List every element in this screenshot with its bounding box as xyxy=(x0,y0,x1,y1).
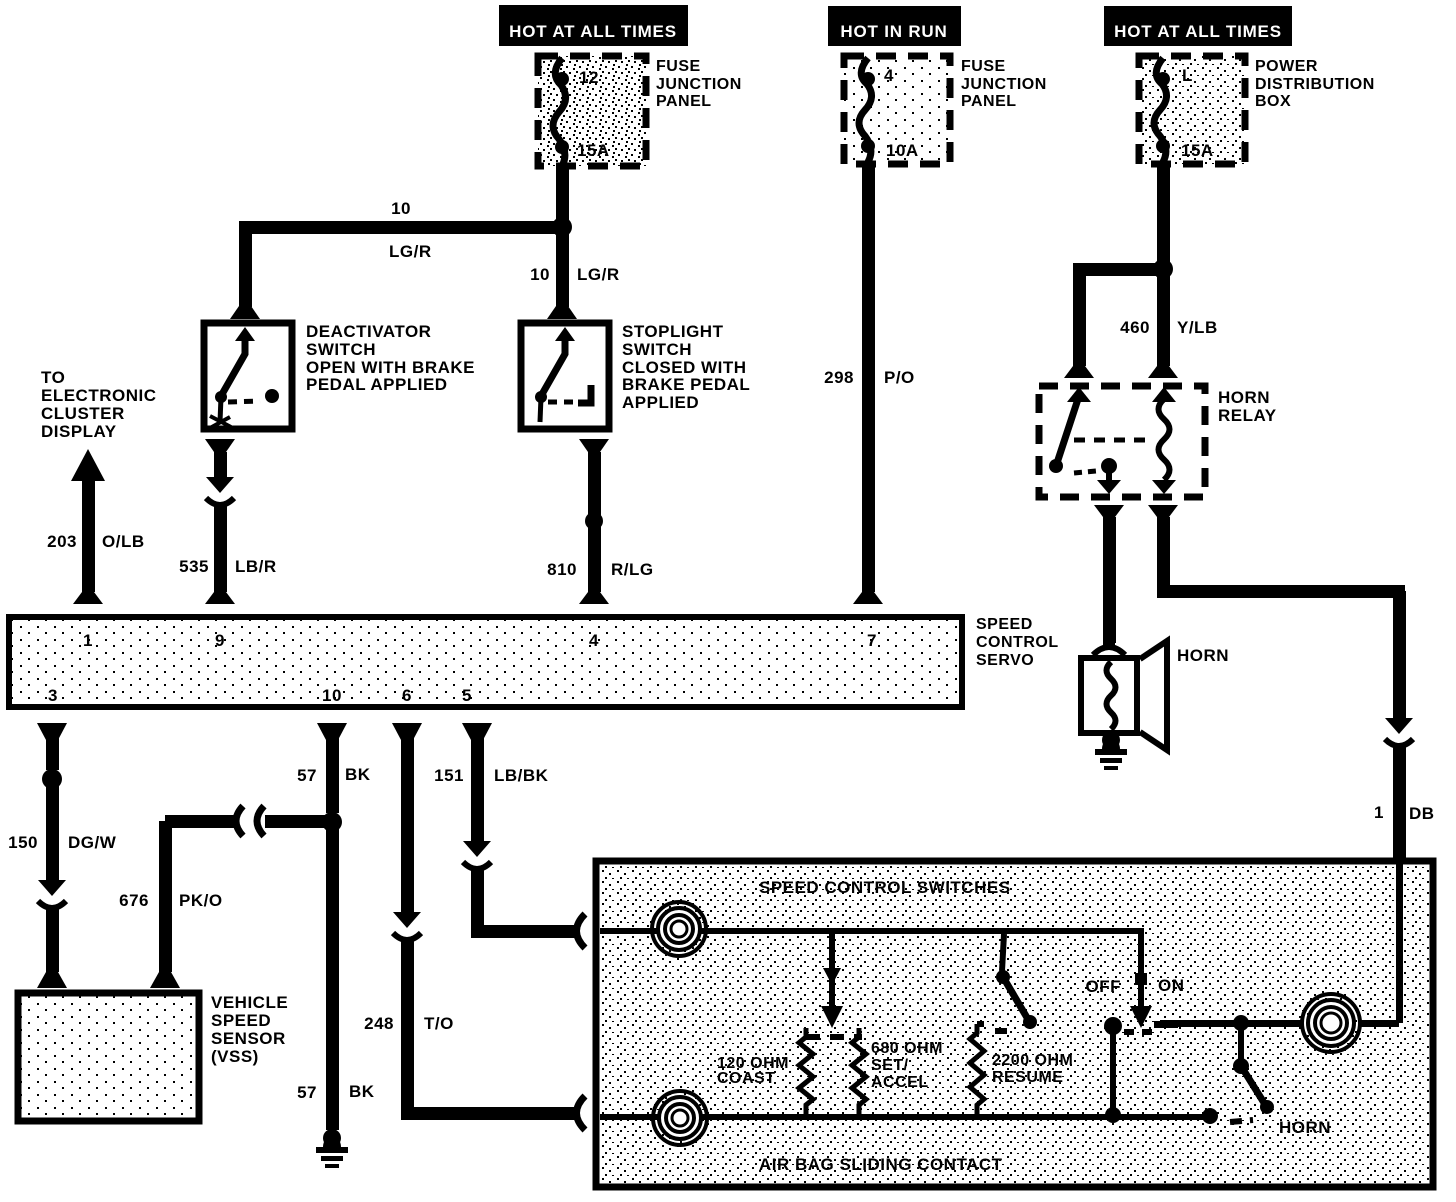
deactivator switch contacts xyxy=(210,327,279,428)
wire deactivator to inline connector xyxy=(214,452,227,477)
svg-text:STOPLIGHT: STOPLIGHT xyxy=(622,322,724,341)
off/on alternate dashes xyxy=(1124,1029,1152,1035)
wire 10 LG/R horizontal xyxy=(240,221,568,234)
svg-text:R/LG: R/LG xyxy=(611,560,654,579)
servo pin 6 cup flare xyxy=(392,723,422,740)
svg-text:(VSS): (VSS) xyxy=(211,1047,259,1066)
horn switch arm xyxy=(1241,1066,1274,1114)
label 680 OHM SET/ACCEL xyxy=(871,1040,943,1091)
servo pin 10 cup flare xyxy=(317,723,347,740)
wire from junction down to stoplight switch xyxy=(556,227,569,307)
fuse rating label 15A xyxy=(577,141,610,160)
svg-text:DG/W: DG/W xyxy=(68,833,117,852)
connector flare onto relay pin B xyxy=(1148,366,1178,378)
fuse junction panel box (left, dashed) xyxy=(538,56,646,166)
splice node on 150 wire xyxy=(42,769,62,789)
horn relay switch xyxy=(1049,387,1150,494)
svg-text:7: 7 xyxy=(867,631,877,650)
wire relay coil to ground run xyxy=(1157,517,1170,597)
label POWER DISTRIBUTION BOX xyxy=(1255,58,1375,110)
svg-text:12: 12 xyxy=(579,68,599,87)
horn coil xyxy=(1107,662,1116,729)
horn switch pivot node xyxy=(1233,1058,1249,1074)
svg-text:151: 151 xyxy=(434,766,464,785)
svg-text:JUNCTION: JUNCTION xyxy=(656,76,742,93)
svg-text:SWITCH: SWITCH xyxy=(622,340,692,359)
horn switch drop xyxy=(1238,1023,1244,1060)
node pivot bottom xyxy=(1105,1107,1121,1123)
svg-text:ON: ON xyxy=(1158,976,1185,995)
power label HOT AT ALL TIMES (right) xyxy=(1104,6,1292,46)
svg-text:SET/: SET/ xyxy=(871,1057,909,1074)
svg-text:460: 460 xyxy=(1120,318,1150,337)
connector flare onto servo pin 9 xyxy=(205,592,235,604)
label FUSE JUNCTION PANEL (middle) xyxy=(961,58,1047,110)
wire 151 LB/BK lower xyxy=(471,869,484,937)
wire 1 DB vertical upper xyxy=(1393,591,1406,718)
inline connector male half (150 wire) xyxy=(38,880,66,896)
servo pin 5 cup flare xyxy=(462,723,492,740)
svg-text:248: 248 xyxy=(364,1014,394,1033)
inline connector female half (151 wire) xyxy=(463,862,491,869)
svg-text:ELECTRONIC: ELECTRONIC xyxy=(41,386,157,405)
off/on pivot node xyxy=(1104,1017,1122,1035)
svg-text:ACCEL: ACCEL xyxy=(871,1074,929,1091)
svg-text:DEACTIVATOR: DEACTIVATOR xyxy=(306,322,431,341)
splice node on 810 wire xyxy=(585,512,603,530)
wire 248 T/O lower xyxy=(401,940,414,1119)
svg-text:3: 3 xyxy=(48,686,58,705)
wire 1 DB vertical lower xyxy=(1393,746,1406,858)
svg-text:BOX: BOX xyxy=(1255,93,1291,110)
clockspring (air bag sliding contact) xyxy=(1302,994,1360,1052)
label DEACTIVATOR SWITCH xyxy=(306,322,475,394)
ground node pin 10 xyxy=(323,1129,341,1147)
svg-text:LB/BK: LB/BK xyxy=(494,766,549,785)
svg-text:15A: 15A xyxy=(1181,141,1214,160)
top rail wire xyxy=(600,928,1144,934)
svg-text:10A: 10A xyxy=(886,141,919,160)
fuse L 15A element xyxy=(1154,58,1170,162)
wire clockspring to riser xyxy=(1361,1020,1399,1027)
junction node horn tap xyxy=(1233,1015,1249,1031)
stoplight switch contacts xyxy=(535,327,591,422)
wire 248 horizontal to switches box xyxy=(401,1107,578,1120)
connector flare onto servo pin 1 xyxy=(73,592,103,604)
wire down to deactivator switch xyxy=(239,221,252,307)
svg-text:298: 298 xyxy=(824,368,854,387)
speed control servo box xyxy=(9,617,962,707)
wire 676 PK/O vertical xyxy=(159,821,172,972)
svg-text:RELAY: RELAY xyxy=(1218,406,1277,425)
svg-text:10: 10 xyxy=(391,199,411,218)
chassis ground (57 BK) xyxy=(323,1136,341,1147)
relay output flare right xyxy=(1148,505,1178,517)
connector flare below deactivator xyxy=(205,439,235,452)
horn relay coil xyxy=(1152,387,1176,494)
wire 57 BK upper xyxy=(326,738,339,813)
wire 535 LB/R to servo pin 9 xyxy=(214,505,227,592)
wire 151 upper xyxy=(471,738,484,841)
svg-text:PANEL: PANEL xyxy=(961,93,1017,110)
label TO ELECTRONIC CLUSTER DISPLAY xyxy=(41,368,157,441)
vehicle speed sensor box xyxy=(18,993,199,1121)
label VEHICLE SPEED SENSOR (VSS) xyxy=(211,993,288,1066)
horn relay box (dashed) xyxy=(1039,386,1205,497)
power label HOT IN RUN xyxy=(828,6,961,46)
wire branch horizontal to relay coil side xyxy=(1073,263,1163,276)
svg-text:POWER: POWER xyxy=(1255,58,1318,75)
wire horizontal to 1 DB drop xyxy=(1157,585,1405,598)
inline connector male half (535 wire) xyxy=(206,477,234,493)
label STOPLIGHT SWITCH xyxy=(622,322,750,412)
label SPEED CONTROL SERVO xyxy=(976,616,1059,669)
sliding contact coil lower left xyxy=(653,1091,707,1145)
inline connector female half (248 wire) xyxy=(393,933,421,940)
svg-text:SPEED CONTROL SWITCHES: SPEED CONTROL SWITCHES xyxy=(759,878,1011,897)
svg-text:Y/LB: Y/LB xyxy=(1177,318,1218,337)
label 2200 OHM RESUME xyxy=(992,1052,1073,1086)
svg-text:CLUSTER: CLUSTER xyxy=(41,404,125,423)
horn cone xyxy=(1140,641,1167,750)
horn switch fixed contact xyxy=(1202,1108,1218,1124)
svg-text:676: 676 xyxy=(119,891,149,910)
inline connector female half (535 wire) xyxy=(206,498,234,505)
svg-text:SPEED: SPEED xyxy=(976,616,1033,633)
horn switch alternate dash xyxy=(1230,1120,1253,1122)
svg-text:DB: DB xyxy=(1409,804,1435,823)
arrow to electronic cluster display xyxy=(71,449,105,481)
svg-text:9: 9 xyxy=(215,631,225,650)
inline connector male half (151 wire) xyxy=(463,841,491,857)
connector flare onto VSS pin A xyxy=(37,972,67,988)
svg-text:5: 5 xyxy=(462,686,472,705)
svg-text:FUSE: FUSE xyxy=(961,58,1006,75)
svg-text:PEDAL APPLIED: PEDAL APPLIED xyxy=(306,375,448,394)
inline connector female half (150 wire) xyxy=(38,901,66,908)
svg-text:1: 1 xyxy=(1374,803,1384,822)
half connector at box edge (248 wire) xyxy=(577,1096,586,1130)
svg-text:P/O: P/O xyxy=(884,368,915,387)
svg-text:FUSE: FUSE xyxy=(656,58,701,75)
deactivator switch box xyxy=(204,323,292,429)
resistor 2200 ohm resume xyxy=(970,1024,984,1116)
svg-text:680 OHM: 680 OHM xyxy=(871,1040,943,1057)
svg-text:VEHICLE: VEHICLE xyxy=(211,993,288,1012)
inline connector male half (DB wire) xyxy=(1385,718,1413,734)
fuse 12 15A element xyxy=(553,58,569,166)
power label HOT AT ALL TIMES (left) xyxy=(499,5,688,46)
wire 676 PK/O horizontal right part xyxy=(265,815,332,828)
off/on closed contact bar xyxy=(1154,1021,1178,1028)
svg-text:LG/R: LG/R xyxy=(389,242,432,261)
label 120 OHM COAST xyxy=(717,1055,789,1087)
svg-text:LB/R: LB/R xyxy=(235,557,277,576)
connector flare onto servo pin 7 xyxy=(853,592,883,604)
resume alternate position dash xyxy=(995,1028,1014,1034)
connector flare onto horn xyxy=(1093,647,1125,655)
wire from fuse panel down to junction xyxy=(556,166,569,222)
svg-text:BK: BK xyxy=(345,765,371,784)
svg-text:BRAKE PEDAL: BRAKE PEDAL xyxy=(622,375,750,394)
inline connector male half (248 wire) xyxy=(393,912,421,928)
svg-text:SENSOR: SENSOR xyxy=(211,1029,286,1048)
resume switch arm xyxy=(996,934,1037,1029)
horn ground node xyxy=(1102,731,1120,749)
junction node 460 Y/LB xyxy=(1153,259,1173,279)
wire 298 P/O xyxy=(862,164,875,592)
resistor 680 ohm set/accel xyxy=(852,1028,866,1116)
svg-text:203: 203 xyxy=(47,532,77,551)
relay output flare left xyxy=(1094,505,1124,517)
wire 150 DG/W xyxy=(46,779,59,880)
svg-text:HORN: HORN xyxy=(1218,388,1270,407)
svg-text:15A: 15A xyxy=(577,141,610,160)
wire fuse L down to junction xyxy=(1157,164,1170,263)
svg-text:10: 10 xyxy=(530,265,550,284)
connector flare below stoplight xyxy=(579,439,609,452)
speed control switches box xyxy=(596,861,1433,1187)
horn ground xyxy=(1102,738,1120,749)
connector flare into deactivator switch xyxy=(230,306,260,319)
svg-text:57: 57 xyxy=(297,766,317,785)
label HORN RELAY xyxy=(1218,388,1277,425)
off/on switch drop wire xyxy=(1130,931,1152,1028)
svg-text:6: 6 xyxy=(402,686,412,705)
wire stoplight to splice xyxy=(588,452,601,521)
wire 151 horizontal to switches box xyxy=(471,925,578,938)
svg-text:PANEL: PANEL xyxy=(656,93,712,110)
svg-text:DISPLAY: DISPLAY xyxy=(41,422,117,441)
svg-text:4: 4 xyxy=(589,631,599,650)
svg-text:OFF: OFF xyxy=(1086,977,1122,996)
svg-text:HOT IN RUN: HOT IN RUN xyxy=(840,22,947,41)
svg-text:RESUME: RESUME xyxy=(992,1069,1063,1086)
svg-text:SPEED: SPEED xyxy=(211,1011,271,1030)
svg-text:57: 57 xyxy=(297,1083,317,1102)
svg-text:150: 150 xyxy=(8,833,38,852)
resistor 120 ohm coast xyxy=(799,1028,813,1116)
inline connector female half (DB wire) xyxy=(1385,739,1413,746)
servo pin 9 flare xyxy=(0,0,1,1)
svg-text:PK/O: PK/O xyxy=(179,891,223,910)
svg-text:1: 1 xyxy=(83,631,93,650)
wire riser inside box xyxy=(1396,862,1403,1023)
junction node 57 BK xyxy=(322,812,342,832)
label FUSE JUNCTION PANEL (left) xyxy=(656,58,742,110)
inline connector female half (676 wire) xyxy=(257,806,264,836)
coast/set wiper arm xyxy=(821,934,843,1028)
sliding contact coil upper left xyxy=(652,902,706,956)
svg-text:810: 810 xyxy=(547,560,577,579)
wiper alternate position dashes (coast/set) xyxy=(806,1034,862,1040)
fuse pin label 12 xyxy=(579,68,599,87)
connector flare onto servo pin 4 xyxy=(579,592,609,604)
wire 57 BK lower xyxy=(326,822,339,1130)
horn body xyxy=(1081,658,1137,733)
svg-text:4: 4 xyxy=(884,66,894,85)
svg-text:APPLIED: APPLIED xyxy=(622,393,699,412)
svg-text:JUNCTION: JUNCTION xyxy=(961,76,1047,93)
wire relay to horn xyxy=(1103,517,1116,643)
svg-text:SWITCH: SWITCH xyxy=(306,340,376,359)
wire junction node (LG/R splice) xyxy=(552,217,572,237)
svg-text:TO: TO xyxy=(41,368,65,387)
bottom rail wire xyxy=(600,1114,1210,1120)
svg-text:LG/R: LG/R xyxy=(577,265,620,284)
fuse junction panel box (middle, dashed) xyxy=(844,56,950,164)
svg-text:AIR BAG SLIDING CONTACT: AIR BAG SLIDING CONTACT xyxy=(759,1155,1003,1174)
svg-text:HOT AT ALL TIMES: HOT AT ALL TIMES xyxy=(1114,22,1282,41)
svg-text:T/O: T/O xyxy=(424,1014,454,1033)
svg-text:10: 10 xyxy=(322,686,342,705)
svg-text:HORN: HORN xyxy=(1279,1118,1331,1137)
wire on-contact to clockspring xyxy=(1160,1020,1301,1027)
svg-text:O/LB: O/LB xyxy=(102,532,145,551)
fuse 4 10A element xyxy=(859,58,875,162)
svg-text:2200 OHM: 2200 OHM xyxy=(992,1052,1073,1069)
wire 676 PK/O horizontal left part xyxy=(165,815,238,828)
wire 810 R/LG to servo pin 4 xyxy=(588,521,601,592)
inline connector male half (676 wire) xyxy=(236,806,243,836)
connector flare onto relay pin A xyxy=(1064,366,1094,378)
wire pivot to bottom rail xyxy=(1110,1030,1116,1117)
half connector at box edge (151 wire) xyxy=(577,914,586,948)
wire 150 to VSS xyxy=(46,908,59,972)
connector flare onto VSS pin B xyxy=(150,972,180,988)
svg-text:BK: BK xyxy=(349,1082,375,1101)
stoplight switch box xyxy=(521,323,609,429)
wire branch down to relay switch pin xyxy=(1073,269,1086,366)
servo pin 3 cup flare xyxy=(37,723,67,740)
svg-text:SERVO: SERVO xyxy=(976,652,1034,669)
svg-text:L: L xyxy=(1182,66,1193,85)
svg-text:DISTRIBUTION: DISTRIBUTION xyxy=(1255,76,1375,93)
svg-text:HOT AT ALL TIMES: HOT AT ALL TIMES xyxy=(509,22,677,41)
svg-text:COAST: COAST xyxy=(717,1070,776,1087)
wire 203 O/LB xyxy=(82,481,95,592)
wire 460 Y/LB down to relay xyxy=(1157,269,1170,366)
connector flare into stoplight switch xyxy=(547,306,577,319)
wire pin3 upper segment xyxy=(46,738,59,770)
svg-text:535: 535 xyxy=(179,557,209,576)
svg-text:HORN: HORN xyxy=(1177,646,1229,665)
wire 248 upper xyxy=(401,738,414,912)
svg-text:CONTROL: CONTROL xyxy=(976,634,1059,651)
power distribution box (dashed) xyxy=(1139,56,1245,164)
